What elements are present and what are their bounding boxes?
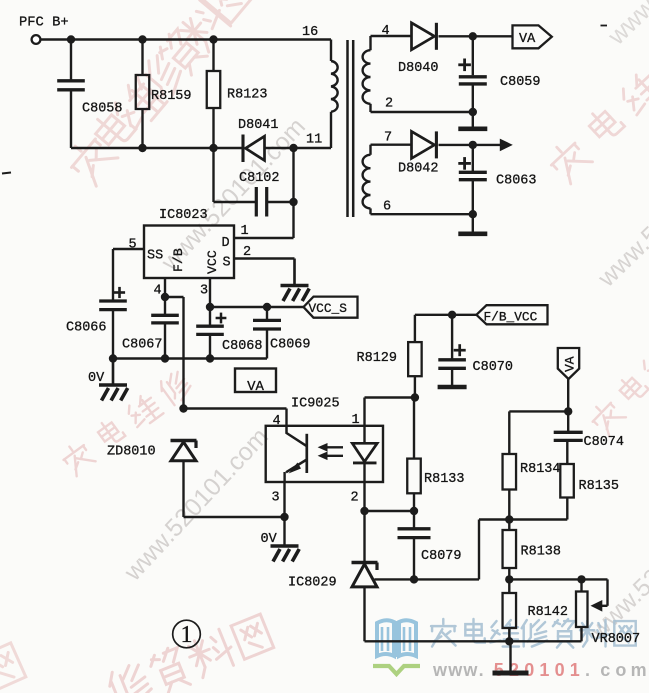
svg-text:C8067: C8067	[122, 338, 163, 353]
svg-text:C8069: C8069	[270, 338, 311, 353]
svg-text:D8042: D8042	[398, 162, 439, 177]
svg-text:VA: VA	[563, 356, 578, 372]
svg-text:R8159: R8159	[151, 89, 192, 104]
svg-text:1: 1	[539, 660, 549, 680]
svg-text:1: 1	[570, 660, 580, 680]
svg-text:.: .	[479, 660, 484, 680]
svg-text:4: 4	[273, 414, 281, 429]
svg-text:C8079: C8079	[421, 549, 462, 564]
svg-text:S: S	[223, 256, 231, 271]
svg-text:5: 5	[129, 238, 137, 253]
svg-text:c: c	[600, 660, 610, 680]
svg-text:0: 0	[555, 660, 565, 680]
svg-text:F/B_VCC: F/B_VCC	[484, 310, 538, 325]
svg-text:3: 3	[272, 491, 280, 506]
svg-text:C8102: C8102	[239, 171, 280, 186]
svg-text:R8123: R8123	[227, 88, 268, 103]
svg-text:D8040: D8040	[398, 61, 439, 76]
svg-text:R8142: R8142	[528, 605, 569, 620]
svg-text:R8129: R8129	[357, 351, 398, 366]
svg-text:C8063: C8063	[496, 174, 537, 189]
svg-text:2: 2	[243, 245, 251, 260]
svg-text:PFC B+: PFC B+	[19, 16, 69, 31]
svg-text:w: w	[432, 660, 448, 680]
svg-text:VA: VA	[519, 32, 536, 47]
svg-text:R8135: R8135	[579, 479, 620, 494]
svg-text:R8134: R8134	[520, 462, 561, 477]
svg-text:SS: SS	[147, 249, 163, 264]
svg-text:5: 5	[494, 660, 504, 680]
svg-text:C8068: C8068	[222, 339, 263, 354]
svg-text:0: 0	[524, 660, 534, 680]
svg-text:C8074: C8074	[584, 435, 625, 450]
svg-text:4: 4	[382, 24, 390, 39]
svg-text:D8041: D8041	[238, 118, 279, 133]
svg-text:1: 1	[181, 622, 193, 648]
svg-text:o: o	[615, 660, 626, 680]
svg-text:VCC: VCC	[205, 250, 220, 274]
svg-text:11: 11	[306, 133, 322, 148]
svg-text:3: 3	[200, 284, 208, 299]
svg-text:D: D	[222, 236, 230, 251]
svg-text:C8059: C8059	[500, 75, 541, 90]
svg-text:VR8007: VR8007	[592, 632, 641, 647]
svg-text:1: 1	[352, 413, 360, 428]
svg-text:VA: VA	[247, 379, 264, 395]
svg-text:w: w	[462, 660, 478, 680]
svg-text:C8058: C8058	[82, 102, 123, 117]
svg-text:w: w	[447, 660, 463, 680]
svg-text:2: 2	[351, 491, 359, 506]
svg-text:16: 16	[302, 25, 318, 40]
svg-text:m: m	[631, 660, 647, 680]
svg-text:VCC_S: VCC_S	[309, 301, 348, 316]
svg-text:IC9025: IC9025	[291, 397, 340, 412]
svg-text:R8138: R8138	[521, 545, 562, 560]
svg-text:7: 7	[384, 131, 392, 146]
svg-text:IC8023: IC8023	[159, 208, 208, 223]
svg-text:.: .	[585, 660, 590, 680]
svg-text:ZD8010: ZD8010	[107, 445, 156, 460]
svg-text:4: 4	[154, 284, 162, 299]
svg-text:C8070: C8070	[473, 360, 514, 375]
svg-text:IC8029: IC8029	[288, 576, 337, 591]
svg-text:6: 6	[383, 200, 391, 215]
svg-text:2: 2	[385, 97, 393, 112]
svg-text:R8133: R8133	[424, 472, 465, 487]
svg-text:C8066: C8066	[66, 321, 107, 336]
svg-text:F/B: F/B	[171, 248, 186, 272]
svg-text:1: 1	[241, 224, 249, 239]
